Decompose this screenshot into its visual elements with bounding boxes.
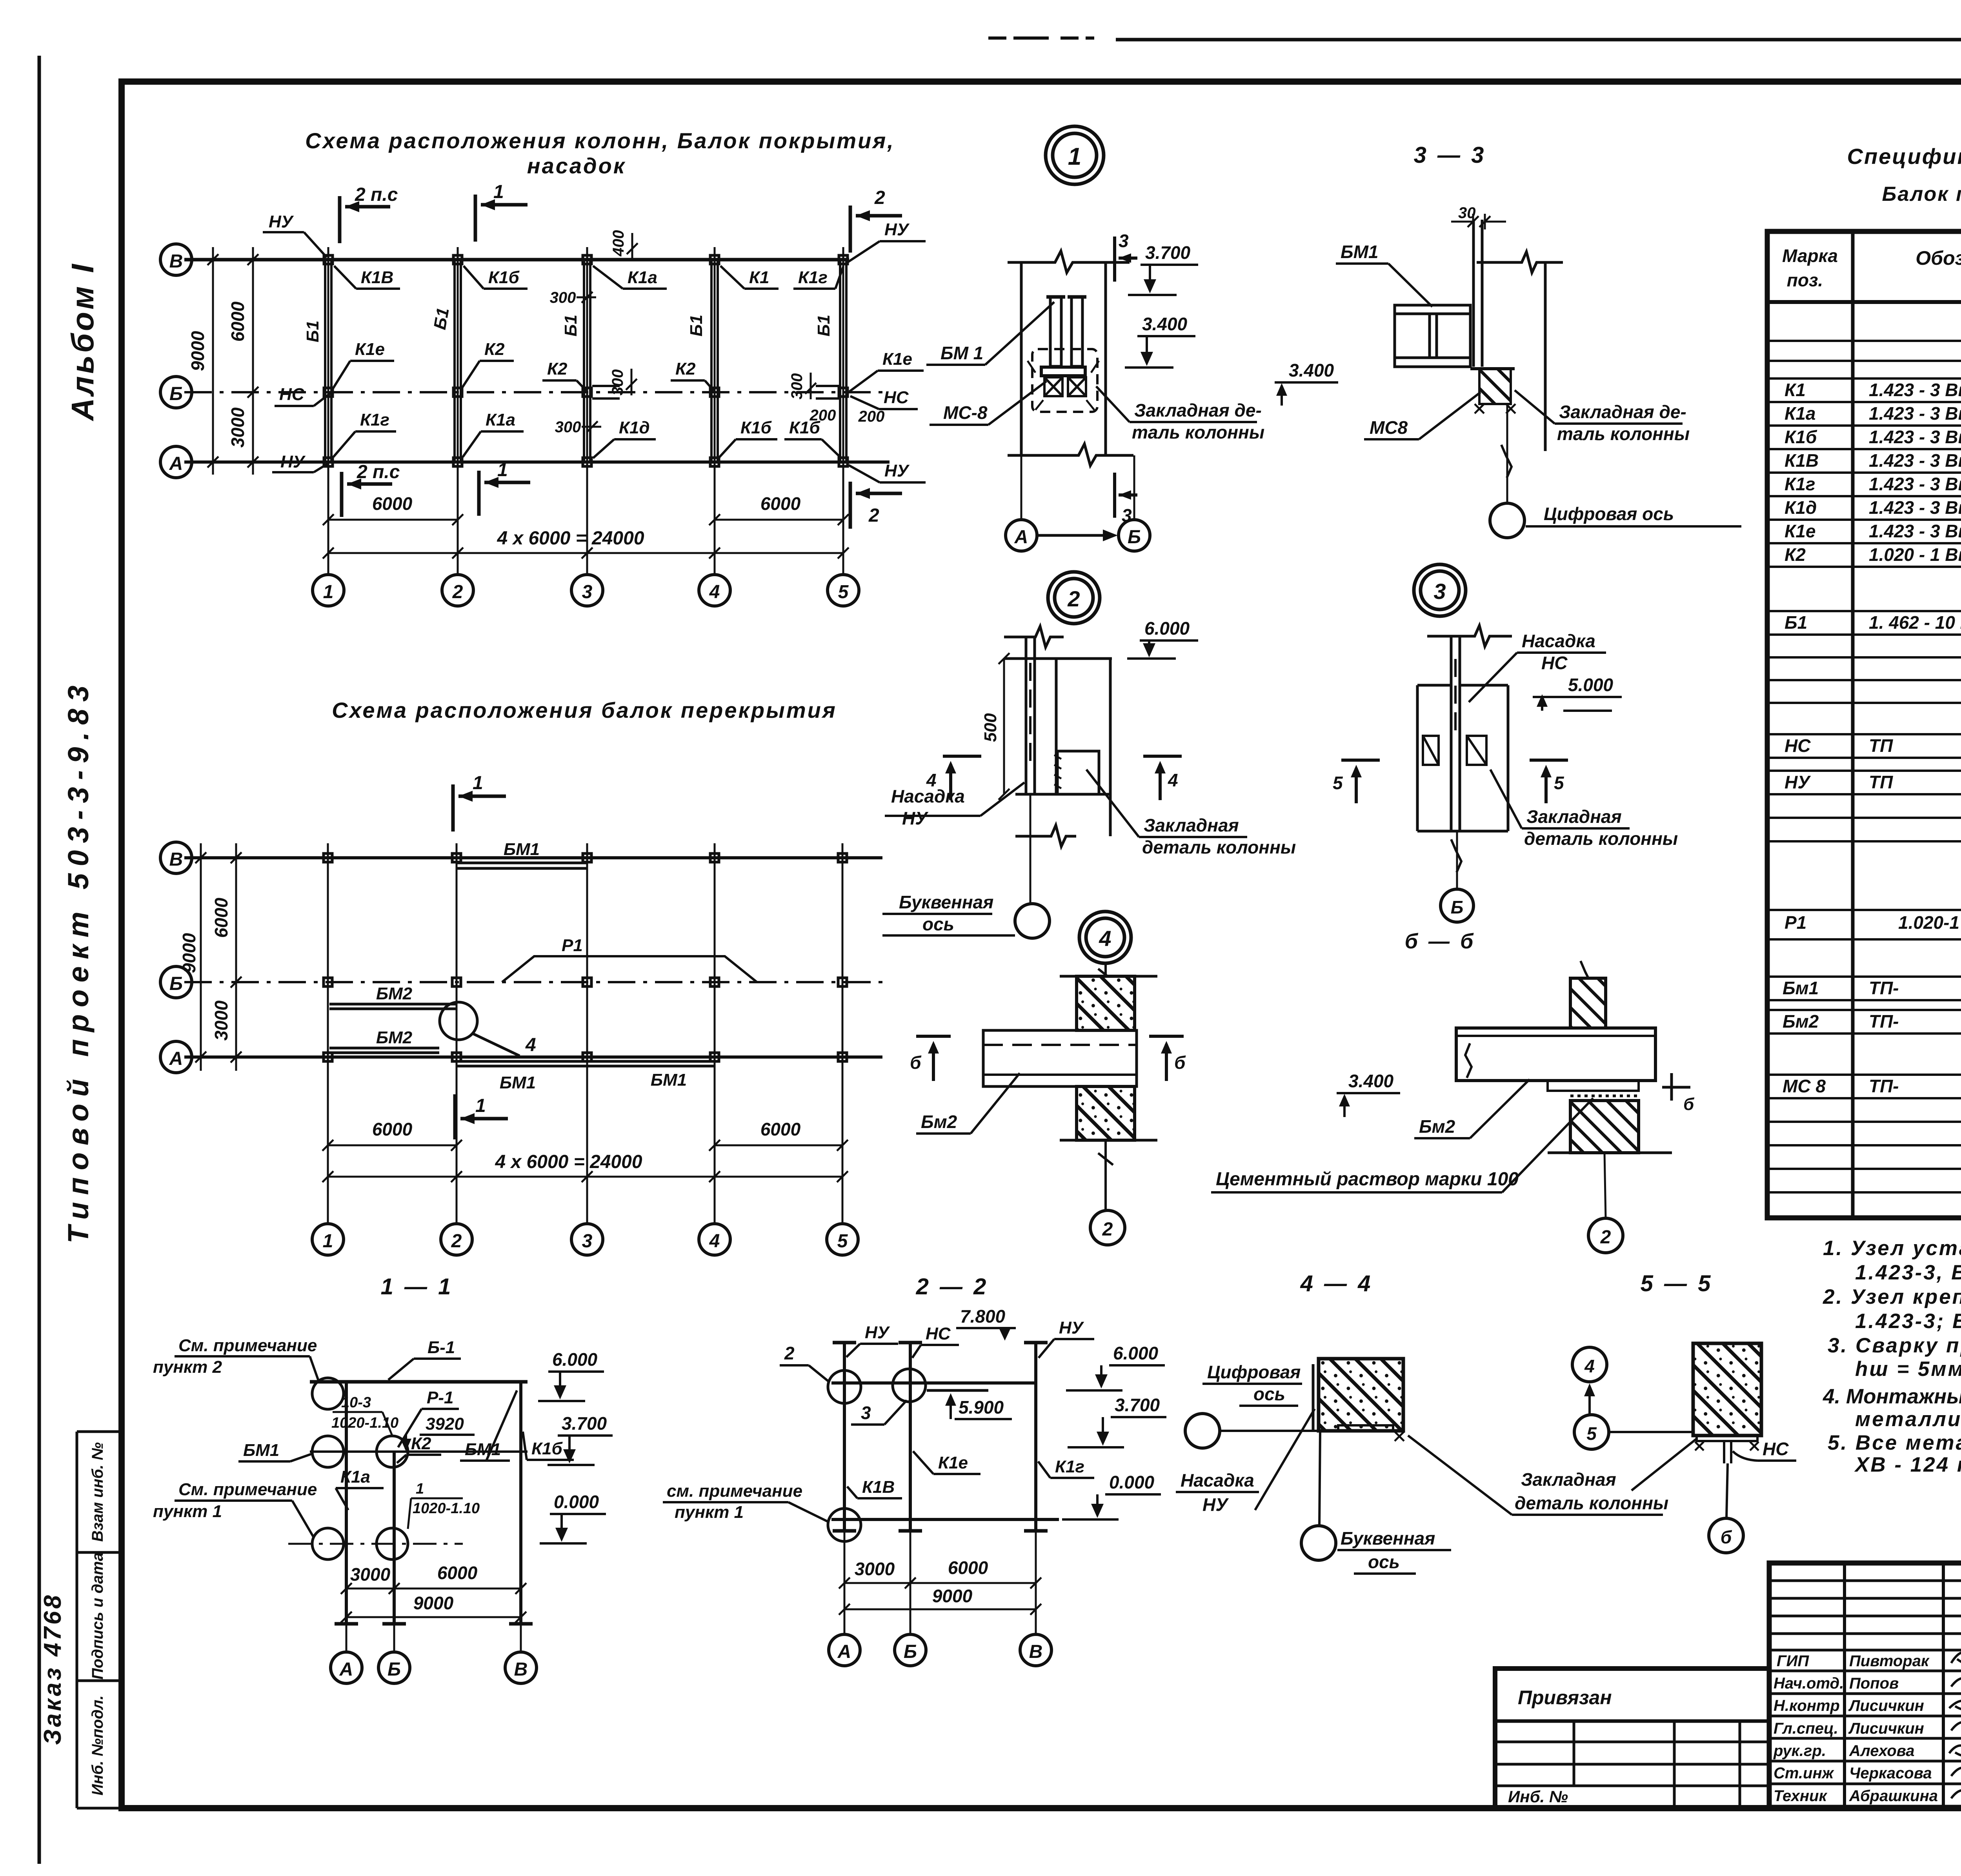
svg-text:К2: К2: [547, 359, 568, 378]
svg-text:Лисичкин: Лисичкин: [1848, 1697, 1924, 1714]
svg-text:ось: ось: [1368, 1552, 1400, 1572]
svg-text:пункт 2: пункт 2: [153, 1357, 222, 1377]
svg-text:1. 462 - 10 Вып.1: 1. 462 - 10 Вып.1: [1869, 612, 1961, 633]
row K1: [1785, 380, 1961, 400]
numeric axis circle: [1185, 1414, 1220, 1448]
svg-text:К1а: К1а: [486, 410, 515, 429]
note label p1: [153, 1480, 317, 1538]
dim 300 rotated axis5: [788, 373, 816, 399]
svg-text:5: 5: [1333, 773, 1343, 793]
label K2 axis3 row B: [542, 359, 586, 391]
svg-text:НУ: НУ: [1202, 1494, 1229, 1515]
svg-text:Б-1: Б-1: [427, 1338, 455, 1357]
svg-text:пункт 1: пункт 1: [675, 1503, 744, 1522]
label R-1: [398, 1388, 459, 1447]
axis circle V: [505, 1652, 537, 1683]
svg-text:К1г: К1г: [1785, 474, 1815, 494]
axis circle V: [160, 244, 192, 275]
svg-text:БМ2: БМ2: [376, 984, 413, 1003]
weld marks: [1028, 361, 1099, 410]
svg-text:рук.гр.: рук.гр.: [1773, 1742, 1826, 1760]
axis tails to circles: [346, 1624, 521, 1651]
svg-text:Б: Б: [1128, 527, 1141, 548]
weld X marks: [1695, 1442, 1759, 1450]
table outer border: [1767, 231, 1961, 1218]
svg-text:А: А: [1014, 527, 1028, 548]
label K1b axis5 row A: [784, 418, 841, 458]
svg-text:Р-1: Р-1: [427, 1388, 453, 1407]
svg-text:ГИП: ГИП: [1777, 1652, 1809, 1670]
svg-text:2: 2: [452, 582, 463, 602]
bottom circle 4: [699, 575, 730, 606]
label K1V: [847, 1478, 902, 1498]
axis tail: [1456, 831, 1458, 888]
svg-text:б — б: б — б: [1405, 930, 1476, 953]
svg-text:насадок: насадок: [527, 153, 626, 178]
svg-text:3.700: 3.700: [562, 1413, 607, 1434]
column bottom line: [1417, 830, 1508, 833]
svg-text:МС8: МС8: [1370, 417, 1408, 438]
hatched column section: [1319, 1359, 1403, 1431]
svg-text:БМ1: БМ1: [465, 1440, 501, 1459]
svg-text:К1а: К1а: [340, 1467, 370, 1487]
svg-text:К1а: К1а: [628, 268, 657, 287]
section mark 2ps top: [340, 196, 390, 243]
svg-text:3: 3: [861, 1403, 871, 1423]
label R1: [557, 936, 596, 956]
section mark 1 top: [475, 195, 528, 242]
svg-text:НС: НС: [1785, 735, 1811, 756]
label NS: [1733, 1439, 1796, 1461]
beam B1 on axis 1: [325, 260, 331, 462]
center axis with breaks: [1098, 963, 1113, 1211]
level 6.000: [1127, 618, 1198, 659]
bottom circle 2: [1588, 1218, 1623, 1253]
svg-text:Инб. №: Инб. №: [1508, 1787, 1568, 1806]
bottom circle 2: [1090, 1210, 1125, 1245]
svg-text:Закладная де-: Закладная де-: [1134, 400, 1262, 420]
nasadka double line top: [1473, 220, 1482, 367]
svg-text:К1: К1: [749, 268, 769, 287]
svg-text:Б: Б: [169, 384, 183, 404]
svg-text:К1б: К1б: [531, 1439, 563, 1458]
rigel line at 3.700: [310, 1450, 528, 1453]
svg-text:3 — 3: 3 — 3: [1414, 142, 1486, 168]
beam B1 on axis 2: [455, 260, 461, 462]
axis tail: [1604, 1153, 1606, 1218]
label NS right row B: [850, 388, 918, 409]
section mark 2ps bottom: [342, 472, 392, 517]
svg-text:300: 300: [609, 369, 626, 396]
column top line: [1004, 657, 1112, 660]
SPEC TABLE TITLE: [1847, 144, 1961, 206]
node circle B mid: [377, 1436, 408, 1467]
axis circle V: [160, 842, 192, 873]
svg-text:К2: К2: [1785, 544, 1806, 565]
level 3.700: [1128, 242, 1198, 295]
svg-text:3920: 3920: [426, 1414, 464, 1434]
title circle 2: [1048, 572, 1100, 624]
label K1d axis3 row A: [593, 418, 656, 458]
beam BM1 I-section: [1395, 305, 1470, 367]
bottom circle 2: [442, 575, 473, 606]
row R1: [1785, 912, 1961, 933]
axis circle A: [331, 1652, 362, 1683]
label BM1 right: [460, 1390, 517, 1461]
base plate: [1697, 1436, 1757, 1441]
bottom circle 3: [571, 575, 603, 606]
svg-text:б: б: [1683, 1095, 1695, 1114]
svg-text:б: б: [1721, 1527, 1732, 1547]
ledge line 5.900: [927, 1389, 988, 1392]
svg-text:ХВ - 124 по ГОСТ 10144-74*: ХВ - 124 по ГОСТ 10144-74*: [1854, 1453, 1961, 1476]
label K1g: [1038, 1457, 1094, 1478]
row K2: [1785, 544, 1961, 565]
dim 300 axis3 lower: [555, 419, 601, 436]
label NU bottom right: [849, 461, 926, 482]
column A: [843, 1343, 846, 1531]
svg-text:К1е: К1е: [882, 349, 912, 369]
svg-text:б: б: [1174, 1052, 1186, 1073]
svg-text:см. примечание: см. примечание: [667, 1481, 802, 1501]
letter axis circle: [1301, 1526, 1336, 1560]
label 4: [508, 1035, 547, 1057]
row BM2: [1783, 1009, 1961, 1032]
svg-text:К2: К2: [675, 359, 696, 378]
svg-text:В: В: [169, 849, 183, 870]
svg-text:Подпись и дата: Подпись и дата: [89, 1552, 106, 1679]
svg-text:Гл.спец.: Гл.спец.: [1774, 1720, 1838, 1737]
row K1a: [1785, 403, 1961, 424]
level 0.000: [1062, 1472, 1161, 1519]
svg-text:2: 2: [451, 1231, 462, 1252]
svg-text:4: 4: [709, 582, 720, 602]
svg-text:2 п.с: 2 п.с: [355, 184, 398, 205]
fraction 10-3/1020-110: [331, 1394, 398, 1436]
svg-text:1: 1: [323, 1231, 333, 1252]
svg-text:Р1: Р1: [562, 936, 583, 955]
axis circle A: [829, 1634, 860, 1666]
svg-text:К1д: К1д: [1785, 497, 1817, 518]
dim 300 rotated axis3 mid: [609, 369, 637, 395]
circle 4 ref: [1572, 1347, 1607, 1382]
svg-text:Черкасова: Черкасова: [1849, 1765, 1932, 1782]
top break line: [1008, 251, 1130, 273]
DETAIL 4 (node 4): [910, 912, 1186, 1245]
svg-text:БМ1: БМ1: [500, 1073, 536, 1092]
svg-text:Закладная: Закладная: [1144, 815, 1239, 835]
svg-text:1.423 - 3 Вып.1: 1.423 - 3 Вып.1: [1869, 427, 1961, 447]
svg-text:К1В: К1В: [1785, 450, 1819, 471]
top break line: [1004, 626, 1064, 647]
grid vertical axis 5: [842, 247, 844, 575]
row NU: [1785, 772, 1961, 792]
svg-text:Б1: Б1: [1785, 612, 1807, 633]
svg-text:К1В: К1В: [862, 1478, 895, 1497]
axis line A: [184, 460, 890, 464]
axis circle B: [1441, 889, 1473, 922]
svg-text:3000: 3000: [350, 1564, 391, 1585]
svg-text:1. Узел установки колонн в: 1. Узел установки колонн в фундаменты см…: [1823, 1237, 1961, 1260]
column inner line: [1055, 659, 1058, 794]
svg-text:А: А: [837, 1641, 851, 1662]
svg-text:ТП: ТП: [1869, 735, 1893, 756]
axis line V: [184, 258, 849, 262]
embedded detail dashed box: [1032, 349, 1097, 412]
svg-text:К2: К2: [411, 1434, 431, 1453]
svg-text:Типовой проект 503-3-9.83: Типовой проект 503-3-9.83: [62, 679, 95, 1243]
arrow 5 to 4: [1584, 1383, 1595, 1415]
bottom column cap line: [1060, 1139, 1157, 1142]
svg-text:Спецификация к схеме расположе: Спецификация к схеме расположения колонн…: [1847, 144, 1961, 169]
grid vertical axis 3: [586, 247, 588, 575]
title circle 3: [1414, 564, 1466, 616]
svg-text:Закладная де-: Закладная де-: [1559, 402, 1686, 422]
label BM2: [1414, 1079, 1530, 1138]
column top ledge: [1417, 684, 1508, 687]
axis tails: [844, 1531, 1036, 1634]
svg-text:5 — 5: 5 — 5: [1641, 1271, 1713, 1296]
beam BM1 along A axis3-4: [587, 1061, 715, 1066]
section mark 1 bottom: [479, 471, 530, 516]
svg-text:1.423 - 3 Вып.1: 1.423 - 3 Вып.1: [1869, 521, 1961, 541]
svg-text:10-3: 10-3: [341, 1394, 371, 1411]
section mark 2 top right: [850, 206, 902, 253]
svg-text:Б1: Б1: [303, 320, 322, 342]
svg-text:500: 500: [981, 713, 1000, 742]
axis circle B: [160, 966, 192, 998]
svg-text:Цементный раствор марки 100: Цементный раствор марки 100: [1216, 1169, 1519, 1190]
svg-text:К1е: К1е: [355, 340, 385, 359]
level 3.400 left: [1275, 360, 1338, 406]
svg-text:6000: 6000: [437, 1563, 478, 1583]
svg-text:6000: 6000: [760, 493, 801, 514]
svg-text:4 х 6000 = 24000: 4 х 6000 = 24000: [495, 1152, 642, 1172]
beam left break: [1465, 1043, 1472, 1078]
b mark left: [916, 1036, 951, 1081]
axis tail: [1506, 404, 1508, 504]
bottom circle 3: [571, 1224, 603, 1255]
svg-text:4: 4: [709, 1231, 720, 1252]
section mark 2 bottom right: [850, 482, 902, 529]
svg-text:9000: 9000: [187, 331, 208, 371]
grid vertical axis 2: [456, 843, 458, 1223]
bottom hatched column: [1077, 1086, 1135, 1140]
level 6.000: [538, 1349, 604, 1401]
label NU left: [846, 1323, 898, 1357]
seat console hatched: [1470, 369, 1515, 404]
label NS: [912, 1324, 959, 1358]
svg-text:2 — 2: 2 — 2: [916, 1274, 989, 1299]
level 3.700: [548, 1413, 613, 1465]
top column break: [1581, 961, 1591, 994]
column B: [393, 1452, 396, 1624]
svg-text:Техник: Техник: [1774, 1787, 1827, 1805]
svg-text:Б: Б: [387, 1659, 401, 1680]
svg-text:300: 300: [550, 289, 576, 306]
svg-text:1 — 1: 1 — 1: [381, 1274, 453, 1299]
svg-text:Закладная: Закладная: [1521, 1469, 1616, 1490]
svg-text:2 п.с: 2 п.с: [357, 462, 400, 482]
svg-text:А: А: [169, 453, 183, 474]
svg-text:4. Монтажные сварные швы до: 4. Монтажные сварные швы должны быть защ…: [1823, 1385, 1961, 1408]
section mark 3 bottom: [1115, 473, 1137, 518]
label K2 axis4 row B: [671, 359, 714, 391]
column B: [909, 1343, 912, 1531]
svg-text:Р1: Р1: [1785, 912, 1806, 933]
column squares row B: [324, 978, 847, 986]
svg-text:1: 1: [493, 182, 504, 202]
column V: [519, 1382, 522, 1624]
svg-text:9000: 9000: [932, 1586, 973, 1606]
svg-text:1.423 - 3 Вып.1: 1.423 - 3 Вып.1: [1869, 450, 1961, 471]
attach verticals: [1574, 1721, 1740, 1807]
top edge dash fragment: [988, 36, 1094, 40]
svg-text:Привязан: Привязан: [1518, 1687, 1612, 1709]
beam BM1 along V axis2-3: [457, 863, 587, 868]
nasadka stem: [1724, 1441, 1731, 1463]
column right line: [1544, 262, 1547, 451]
column squares row A: [324, 458, 848, 466]
bottom circle 2: [441, 1224, 472, 1255]
title circle 1: [1046, 126, 1104, 184]
svg-text:БМ1: БМ1: [1341, 242, 1378, 262]
svg-text:5: 5: [838, 582, 849, 602]
svg-text:0.000: 0.000: [554, 1492, 599, 1512]
svg-text:К1е: К1е: [1785, 521, 1815, 541]
svg-text:Обозначение: Обозначение: [1916, 247, 1961, 269]
svg-text:поз.: поз.: [1787, 270, 1823, 290]
column right line: [1109, 659, 1112, 836]
label zakladnaya: [1490, 770, 1678, 849]
svg-text:9000: 9000: [179, 933, 199, 973]
svg-text:Буквенная: Буквенная: [1341, 1528, 1435, 1548]
weld X mark: [1395, 1432, 1404, 1441]
svg-text:таль колонны: таль колонны: [1132, 422, 1264, 442]
svg-text:Алехова: Алехова: [1849, 1742, 1915, 1760]
axis circle B: [895, 1634, 926, 1666]
angle vertical leg: [1312, 1364, 1315, 1431]
line circle5 to plate: [1609, 1431, 1693, 1433]
row B1: [1785, 612, 1961, 633]
line circle to column: [1220, 1430, 1319, 1432]
svg-text:4 х 6000 = 24000: 4 х 6000 = 24000: [497, 528, 644, 549]
label K1e axis5 row B: [850, 349, 924, 391]
svg-text:ось: ось: [1253, 1384, 1285, 1404]
label K1g axis1 row A: [333, 410, 396, 457]
section mark 1 bottom: [455, 1094, 508, 1139]
bottom circle 1: [312, 1224, 344, 1255]
svg-text:Инб. №подл.: Инб. №подл.: [89, 1695, 106, 1795]
main stamp outer: [1769, 1563, 1961, 1807]
svg-text:Взам инб. №: Взам инб. №: [89, 1442, 106, 1542]
DETAIL 4-4: [1176, 1271, 1668, 1574]
svg-text:1020-1.10: 1020-1.10: [413, 1500, 480, 1517]
DETAIL NODE 1: [926, 126, 1264, 551]
svg-text:5: 5: [1554, 773, 1564, 793]
leader zakladnaya to plate: [1632, 1439, 1697, 1490]
svg-text:БМ1: БМ1: [243, 1441, 279, 1460]
dim 6000 bays 1-2: [323, 514, 463, 525]
label nasadka NS: [1469, 631, 1606, 702]
svg-text:5: 5: [837, 1231, 848, 1252]
svg-text:Схема расположения колонн, Ба: Схема расположения колонн, Балок покрыти…: [305, 128, 895, 153]
DETAIL 5-5: [1572, 1271, 1796, 1553]
dim line 9000: [341, 1612, 526, 1623]
dim line 3000/6000: [341, 1583, 526, 1594]
svg-text:НУ: НУ: [884, 220, 910, 239]
column top ticks: [833, 1341, 1048, 1345]
svg-text:Закладная: Закладная: [1526, 806, 1622, 827]
left dim line 6000/3000: [231, 843, 242, 1071]
axis circle A: [160, 446, 192, 478]
label K1 axis4: [720, 266, 779, 289]
label BM1 left: [238, 1441, 313, 1461]
section mark 5 left: [1341, 760, 1380, 803]
column line marka: [1851, 231, 1855, 1218]
axis line A: [184, 1055, 882, 1059]
svg-text:МС 8: МС 8: [1783, 1076, 1826, 1096]
svg-text:6000: 6000: [211, 897, 231, 938]
svg-text:Бм2: Бм2: [1419, 1116, 1455, 1137]
top hatched column: [1077, 976, 1135, 1030]
section mark 4 right: [1143, 756, 1182, 800]
svg-text:6000: 6000: [227, 301, 248, 342]
svg-text:НС: НС: [1541, 653, 1568, 673]
svg-text:БМ1: БМ1: [504, 840, 540, 859]
label BM1: [926, 302, 1054, 365]
axis line B dash-dot: [184, 981, 890, 983]
signatures scribbles: [1949, 1649, 1961, 1800]
column A: [345, 1382, 348, 1624]
level 3.400: [1337, 1071, 1400, 1117]
embedded part right: [1467, 736, 1486, 765]
dim 500: [999, 653, 1010, 800]
beam B1 on axis 4: [711, 260, 718, 462]
node circle A: [828, 1370, 861, 1403]
label NU bottom-left: [272, 452, 328, 472]
grid vertical axis 1: [327, 843, 329, 1223]
grid vertical axis 3: [586, 843, 588, 1223]
bearing plate: [1548, 1081, 1639, 1091]
axis circle A: [160, 1041, 192, 1073]
section mark 3 top: [1115, 237, 1137, 282]
SECTION 1-1: [153, 1274, 613, 1683]
svg-text:НУ: НУ: [269, 212, 294, 231]
label zakladnaya: [1096, 386, 1264, 442]
svg-text:2. Узел крепления балки Б1: 2. Узел крепления балки Б1 к колонне смо…: [1823, 1285, 1961, 1308]
row BM1: [1783, 975, 1961, 998]
svg-text:6000: 6000: [760, 1119, 801, 1139]
nasadka double line: [1026, 637, 1035, 794]
svg-text:hш = 5мм.: hш = 5мм.: [1855, 1357, 1961, 1381]
svg-text:таль колонны: таль колонны: [1557, 424, 1690, 444]
grid vertical axis 1: [327, 247, 329, 575]
label NU top right: [848, 220, 926, 262]
node circle A top: [312, 1378, 344, 1409]
label MC8: [1364, 392, 1481, 439]
svg-text:2: 2: [868, 505, 879, 526]
svg-text:деталь колонны: деталь колонны: [1524, 828, 1678, 849]
svg-text:К1б: К1б: [1785, 427, 1817, 447]
letter axis circle: [1015, 904, 1050, 938]
node circle A zero: [312, 1528, 344, 1559]
shared label zakladnaya: [1408, 1436, 1668, 1515]
svg-text:Б1: Б1: [430, 306, 453, 331]
label MC-8: [930, 381, 1046, 425]
svg-text:0.000: 0.000: [1109, 1472, 1155, 1492]
svg-text:2: 2: [784, 1343, 795, 1363]
